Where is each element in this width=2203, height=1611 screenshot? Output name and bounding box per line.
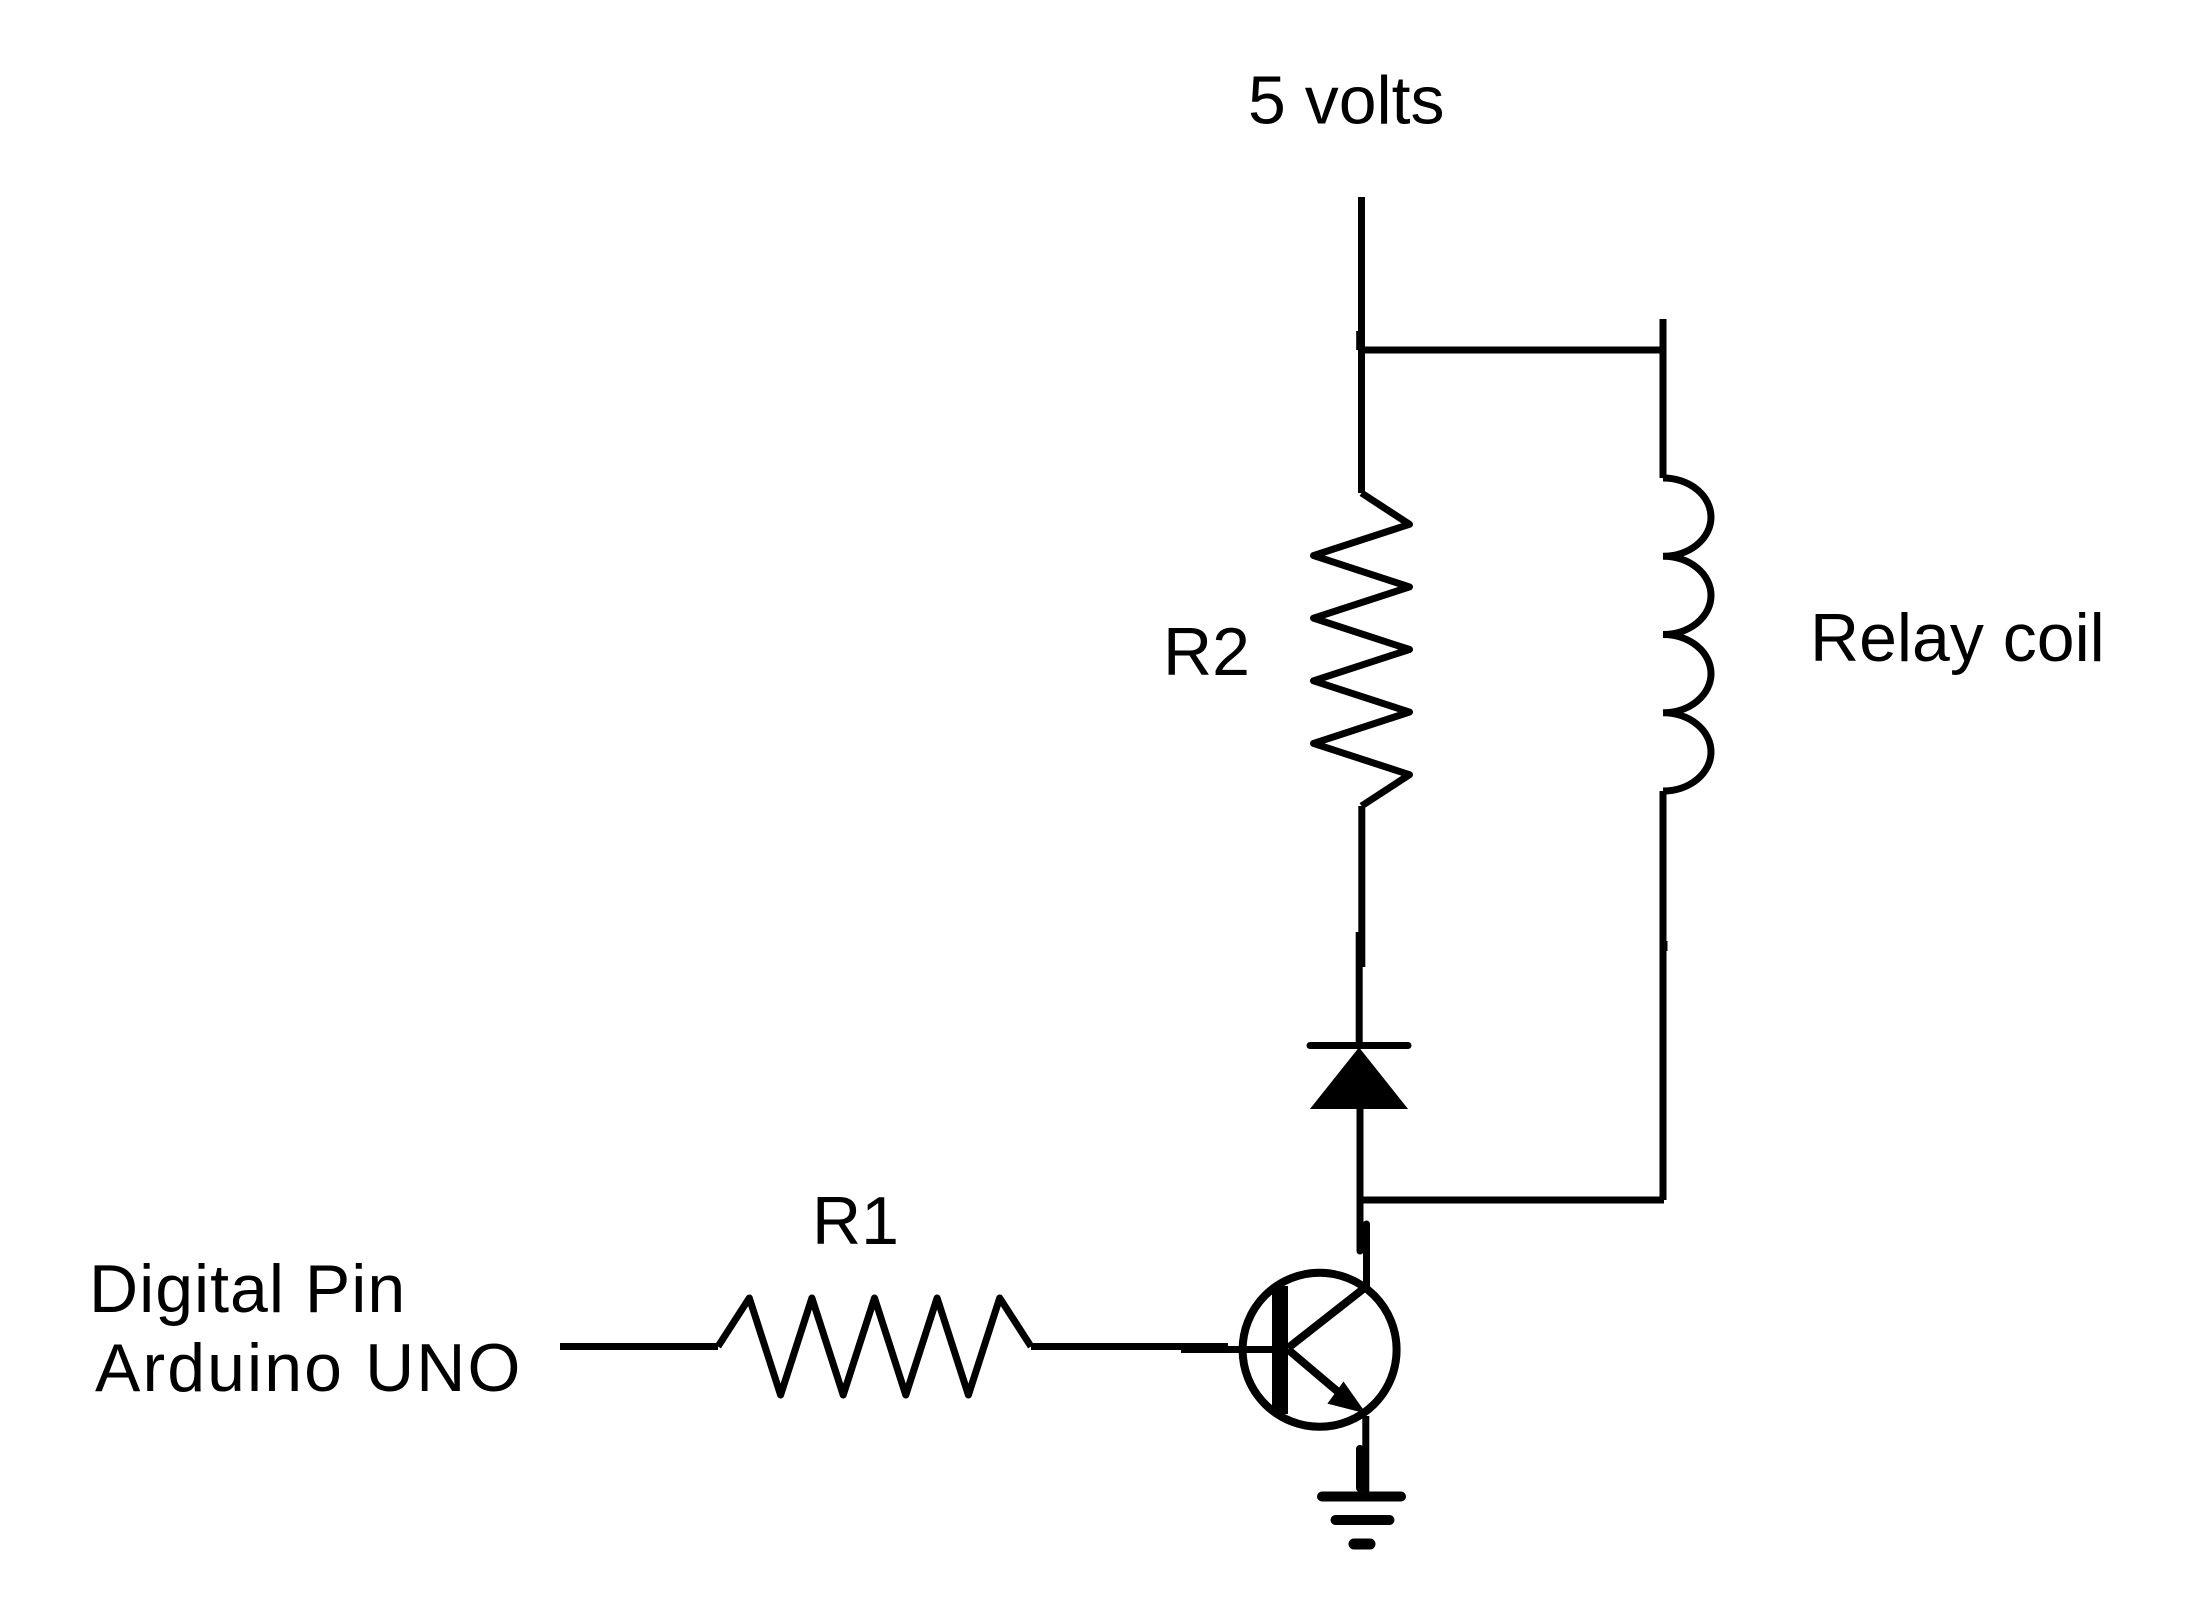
wire 5V stub down to top junction and on to R2 top <box>1358 197 1365 493</box>
svg-text:Digital Pin: Digital Pin <box>89 1251 406 1327</box>
resistor R2 <box>1314 493 1410 806</box>
wire diode cathode lead (overlapping seam) <box>1356 932 1363 1046</box>
ground symbol bar 1 <box>1322 1492 1401 1502</box>
resistor R1 <box>718 1298 1031 1395</box>
svg-text:R2: R2 <box>1163 614 1250 690</box>
wire relay branch top stub <box>1660 319 1667 478</box>
transistor Q1 collector diagonal <box>1288 1286 1367 1348</box>
diode D1 triangle (anode, pointing up) <box>1312 1049 1406 1108</box>
wire diode anode lead down past bottom junction <box>1357 1108 1364 1251</box>
wire top junction horizontal to relay branch <box>1362 347 1665 354</box>
transistor Q1 emitter diagonal <box>1288 1350 1353 1405</box>
wire seam dash on relay branch <box>1662 941 1668 951</box>
wire ground stem seam dash <box>1356 1449 1364 1488</box>
ground symbol bar 2 <box>1336 1515 1390 1525</box>
wire R2 bottom lead <box>1358 806 1365 967</box>
wire seam dash left of junction <box>1356 331 1362 350</box>
svg-text:Relay coil: Relay coil <box>1810 600 2105 676</box>
svg-text:5 volts: 5 volts <box>1248 63 1445 139</box>
inductor relay coil (4 arcs) <box>1663 478 1711 791</box>
wire digital pin lead to R1 <box>560 1343 718 1350</box>
wire R1 right lead <box>1031 1343 1228 1350</box>
transistor Q1 circle <box>1243 1273 1397 1427</box>
svg-text:R1: R1 <box>812 1183 899 1259</box>
wire bottom junction horizontal (collector node to relay branch) <box>1360 1197 1664 1204</box>
svg-text:Arduino UNO: Arduino UNO <box>95 1330 522 1406</box>
transistor Q1 base bar <box>1272 1286 1288 1414</box>
diode D1 cathode bar <box>1310 1042 1408 1049</box>
ground symbol bar 3 <box>1354 1539 1370 1550</box>
wire collector lead (seam above transistor) <box>1363 1224 1370 1287</box>
transistor Q1 emitter arrowhead <box>1330 1384 1363 1411</box>
wire base lead seam into transistor <box>1181 1346 1272 1353</box>
wire emitter lead down <box>1362 1416 1369 1492</box>
wire relay branch bottom down to bottom junction <box>1660 791 1667 1200</box>
